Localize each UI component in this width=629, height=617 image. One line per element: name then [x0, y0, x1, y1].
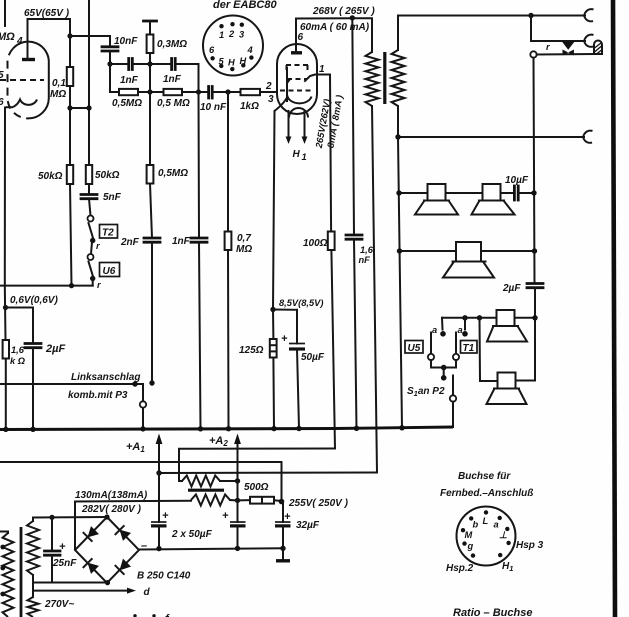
svg-text:2µF: 2µF [502, 283, 521, 294]
svg-text:5: 5 [0, 70, 4, 81]
svg-text:H: H [293, 149, 301, 160]
socket Fernbedienung [457, 507, 516, 566]
svg-text:Hsp 3: Hsp 3 [516, 540, 544, 551]
capacitor 2µF [527, 282, 543, 285]
svg-text:a: a [432, 325, 437, 335]
svg-text:T2: T2 [102, 228, 114, 239]
svg-text:2: 2 [228, 29, 235, 39]
switch U5 [441, 318, 444, 330]
capacitor 10µF [513, 186, 516, 200]
wire B+ 268V down [352, 18, 354, 235]
wire 282V [75, 501, 191, 550]
wire [91, 242, 92, 254]
resistor 0,1MΩ [69, 36, 71, 67]
svg-text:MΩ: MΩ [50, 89, 66, 100]
svg-text:0,3MΩ: 0,3MΩ [157, 39, 187, 50]
svg-text:0,5 MΩ: 0,5 MΩ [157, 98, 190, 109]
wire switch bottoms [431, 360, 456, 368]
EL95 anode [291, 51, 302, 54]
capacitor 1nF b [170, 59, 173, 70]
capacitor 10nF coupling [109, 36, 111, 47]
svg-text:–: – [141, 540, 147, 552]
transformer core [383, 52, 386, 104]
svg-text:255V( 250V ): 255V( 250V ) [288, 498, 349, 509]
wire anode to B+ node [296, 17, 352, 19]
svg-text:6: 6 [0, 97, 4, 108]
svg-text:Hsp.2: Hsp.2 [446, 563, 474, 574]
svg-text:50µF: 50µF [301, 352, 325, 363]
svg-text:S1an P2: S1an P2 [407, 386, 445, 398]
270V winding [28, 597, 39, 617]
wire +A1 rail (line3) [159, 472, 377, 475]
svg-text:L: L [483, 516, 489, 526]
output transformer T primary [352, 18, 372, 52]
svg-text:Linksanschlag: Linksanschlag [71, 372, 140, 383]
svg-text:3: 3 [268, 94, 274, 105]
resistor 0,7MΩ [227, 92, 229, 232]
resistor 0,5MΩ b [164, 89, 183, 95]
node 65V junction [67, 33, 72, 38]
svg-text:2: 2 [265, 81, 272, 92]
svg-text:125Ω: 125Ω [239, 345, 264, 356]
svg-text:b: b [473, 520, 479, 530]
wire right column down [534, 58, 535, 284]
bottom cut text marks [133, 614, 136, 617]
svg-text:H: H [240, 56, 247, 66]
svg-text:10µF: 10µF [505, 175, 529, 186]
wire 65V anode to node [28, 19, 71, 36]
svg-text:60mA ( 60 mA): 60mA ( 60 mA) [300, 22, 370, 33]
svg-text:2 x 50µF: 2 x 50µF [171, 529, 213, 540]
wire from top node down [531, 16, 585, 42]
resistor 50kΩ right [86, 165, 92, 184]
minus rail [139, 548, 283, 549]
capacitor 1nF a [127, 59, 130, 70]
svg-text:Fernbed.–Anschluß: Fernbed.–Anschluß [440, 488, 533, 499]
EL95 pip dome [289, 108, 308, 117]
contact symbol r [562, 41, 576, 50]
svg-text:32µF: 32µF [296, 520, 320, 531]
capacitor 10nF b [207, 87, 210, 99]
svg-text:B 250 C140: B 250 C140 [137, 571, 191, 582]
resistor 0,5MΩ a [119, 89, 138, 95]
svg-text:270V~: 270V~ [44, 599, 74, 610]
bridge rectifier B250C140 [75, 517, 139, 583]
speaker LS4 [487, 310, 527, 342]
switch S1 lever [452, 376, 454, 396]
svg-text:500Ω: 500Ω [244, 482, 269, 493]
svg-text:MΩ: MΩ [236, 244, 252, 255]
switch T1 [464, 318, 466, 330]
svg-text:10 nF: 10 nF [200, 102, 227, 113]
capacitor 2µF [32, 308, 34, 344]
svg-text:g: g [467, 541, 474, 551]
svg-text:6: 6 [298, 32, 304, 43]
svg-text:0,1: 0,1 [52, 78, 66, 89]
wire speaker row 3 [442, 317, 497, 319]
svg-text:2nF: 2nF [120, 237, 140, 248]
svg-text:a: a [458, 325, 463, 335]
svg-text:nF: nF [359, 255, 371, 265]
capacitor 2nF [144, 237, 160, 240]
svg-text:100Ω: 100Ω [303, 238, 328, 249]
resistor 500Ω [238, 499, 251, 501]
ground [282, 548, 284, 559]
svg-text:+: + [162, 510, 169, 522]
speaker LS3 [443, 242, 494, 278]
output tube EL95 envelope [277, 44, 317, 114]
svg-text:komb.mit P3: komb.mit P3 [68, 390, 128, 401]
wire g2 to pin1 [305, 75, 330, 82]
mains transformer core [20, 527, 23, 617]
wire speaker row 1 [399, 192, 428, 194]
wire from top edge x=89 [88, 0, 90, 165]
svg-text:282V( 280V ): 282V( 280V ) [81, 504, 142, 515]
node 0,6V [3, 305, 8, 310]
svg-text:U5: U5 [408, 343, 421, 354]
svg-text:4: 4 [16, 36, 23, 47]
diode NE [120, 530, 132, 541]
plug hatched [594, 41, 602, 55]
EL95 grid g3 [286, 64, 308, 66]
wire grid row [110, 91, 119, 93]
svg-text:a: a [494, 520, 499, 530]
mains primary winding [0, 531, 8, 533]
svg-text:8,5V(8,5V): 8,5V(8,5V) [279, 298, 323, 308]
output transformer T secondary [392, 50, 405, 106]
switch T2 [88, 216, 94, 222]
wire stub top-left [4, 0, 6, 26]
jack hook top [584, 9, 594, 15]
wire LS5 left [480, 318, 498, 381]
capacitor 1nF c [198, 92, 201, 238]
wire cathode down left side [4, 108, 6, 286]
svg-text:T1: T1 [463, 343, 475, 354]
speaker LS1 [415, 184, 458, 215]
terminal 0,3MΩ top [144, 20, 157, 23]
svg-text:0,6V(0,6V): 0,6V(0,6V) [10, 295, 58, 306]
svg-text:4: 4 [247, 45, 254, 55]
wire bus 0,6V row [0, 285, 93, 287]
speaker LS5 [487, 373, 527, 405]
svg-text:U6: U6 [103, 266, 116, 277]
node 8,5V [270, 307, 275, 312]
svg-text:0,7: 0,7 [237, 233, 251, 244]
switch U6 [88, 254, 94, 260]
wire 270V tap, arrow d [33, 590, 128, 592]
V1 grid (dashed, pin 5) [0, 79, 44, 81]
wire [70, 107, 89, 109]
svg-text:⊥: ⊥ [499, 530, 507, 540]
svg-text:+: + [281, 333, 288, 345]
svg-text:3: 3 [239, 30, 245, 40]
svg-text:6: 6 [209, 45, 215, 55]
resistor 1kΩ [241, 89, 261, 95]
wire LS5 right [516, 380, 536, 382]
svg-text:MΩ: MΩ [0, 31, 15, 43]
diode SE [120, 559, 132, 571]
svg-text:268V ( 265V ): 268V ( 265V ) [312, 6, 375, 17]
wire g2 rail down [330, 75, 331, 232]
wire secondary top [398, 16, 585, 51]
chassis bus [0, 427, 453, 430]
speaker LS2 [472, 184, 515, 215]
resistor 50kΩ left [67, 165, 73, 184]
choke core [188, 489, 224, 492]
svg-text:50kΩ: 50kΩ [38, 171, 63, 182]
svg-text:1: 1 [302, 152, 307, 162]
svg-text:50kΩ: 50kΩ [95, 170, 120, 181]
jack hook mid [583, 131, 593, 137]
EL95 grid g1 [280, 90, 314, 92]
HV secondary winding [27, 521, 39, 575]
V1 anode [22, 58, 35, 61]
svg-text:130mA(138mA): 130mA(138mA) [75, 490, 148, 501]
svg-text:10nF: 10nF [114, 36, 138, 47]
wire top row [110, 63, 127, 65]
svg-text:1,6: 1,6 [360, 245, 374, 255]
choke L winding top [179, 480, 182, 482]
capacitor 1,6nF [346, 234, 362, 237]
wire 255V rail (line2) [0, 462, 282, 502]
capacitor 5nF [81, 193, 97, 196]
wire g2 feed (line1) [179, 449, 335, 482]
resistor 100Ω [328, 232, 335, 251]
diode NW [88, 526, 100, 537]
wire winding bottom to bridge [32, 575, 34, 597]
svg-text:+: + [222, 510, 229, 522]
wire speaker common down [398, 137, 402, 428]
wire Linksanschlag [0, 383, 143, 385]
resistor 0,5MΩ vertical [149, 92, 151, 165]
wire 2nF branch end [142, 384, 144, 401]
wire cathode down [273, 111, 275, 310]
resistor 0,3MΩ [147, 35, 154, 54]
svg-text:25nF: 25nF [52, 558, 77, 569]
svg-text:d: d [144, 587, 151, 598]
svg-text:5nF: 5nF [103, 192, 122, 203]
V1 cathode [6, 100, 38, 108]
svg-text:1,6: 1,6 [11, 345, 25, 355]
svg-text:1kΩ: 1kΩ [240, 101, 259, 112]
svg-text:1: 1 [319, 64, 325, 75]
svg-text:1: 1 [219, 30, 224, 40]
svg-text:0,5MΩ: 0,5MΩ [158, 168, 188, 179]
jack hook second [584, 35, 594, 41]
wire primary bottom to +A1 rail [372, 106, 377, 473]
svg-text:1nF: 1nF [172, 236, 191, 247]
svg-text:65V(65V ): 65V(65V ) [24, 8, 70, 19]
svg-text:5: 5 [219, 57, 225, 67]
svg-text:Ratio – Buchse: Ratio – Buchse [453, 607, 532, 617]
border line right [613, 0, 615, 617]
capacitor 25nF [51, 517, 53, 551]
EL95 grid g2 [287, 78, 307, 80]
svg-text:0,5MΩ: 0,5MΩ [112, 98, 142, 109]
EL95 heater leads H1 [288, 111, 290, 138]
wire node to 10nF [70, 35, 110, 37]
svg-text:1nF: 1nF [120, 75, 139, 86]
svg-text:der EABC80: der EABC80 [213, 0, 277, 11]
node [67, 105, 72, 110]
svg-text:2µF: 2µF [45, 343, 65, 355]
choke L winding bottom [191, 495, 230, 506]
resistor 125Ω [272, 310, 274, 340]
wire secondary bottom [398, 106, 584, 137]
diode SW [88, 563, 100, 574]
svg-text:Buchse für: Buchse für [458, 471, 511, 482]
svg-text:1nF: 1nF [163, 74, 182, 85]
wire speaker row 2 [400, 250, 457, 252]
resistor 1,6kΩ [3, 340, 9, 359]
EL95 cathode [275, 97, 312, 112]
svg-text:M: M [465, 530, 473, 540]
svg-text:H: H [228, 58, 235, 68]
switch contact circle [530, 51, 536, 57]
svg-text:k Ω: k Ω [10, 356, 26, 366]
tube V1 triode (partial EABC80) envelope [13, 42, 49, 119]
